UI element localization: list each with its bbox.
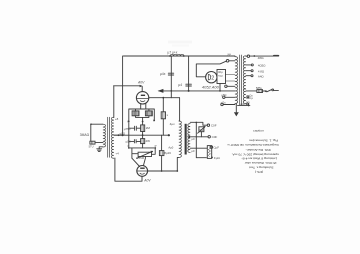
transformer T3 secondary winding [243,56,246,104]
ground T3 [234,112,239,116]
wire cathode row 2 [129,147,156,149]
capacitor C4 plates [134,140,136,143]
wire primary bottom to ground [99,147,103,149]
ground input [97,149,102,152]
resistor R3 box [141,125,145,132]
capacitor C2 vertical lead [188,56,190,91]
terminal T3 primary top left [226,60,229,63]
junction dot center [142,121,144,123]
transformer T2 core [185,124,187,155]
wire left vertical from rail [122,56,124,135]
terminal tapA4 [251,75,253,77]
input source wires [91,124,103,141]
svg-text:µ750: µ750 [124,127,131,131]
wire T2 middle tap [189,136,208,138]
svg-text:2: 2 [211,76,214,82]
terminal T3 left mid [225,85,227,87]
tube V2 cathode arc [140,172,144,175]
junction dot C5 [219,90,221,92]
svg-text:5Ω: 5Ω [246,101,250,105]
transformer T1 secondary winding [111,117,113,158]
svg-text:CµF: CµF [213,146,219,150]
wire right vertical 2 lower from OT [177,157,179,171]
junction dot middle tap [188,136,190,138]
svg-text:4052 A00: 4052 A00 [202,86,219,90]
terminal R8 top [210,146,212,148]
wire T3 HV top tap to right rail [246,55,278,57]
wire R7 to transformer [95,142,103,144]
transformer T1 input primary winding [103,124,106,147]
svg-text:2M: 2M [146,126,151,130]
wire R4 down [142,144,144,148]
junction dot P left [128,121,130,123]
tube V2 grid chord [137,170,147,172]
svg-text:40µ: 40µ [218,70,223,74]
svg-text:+4: +4 [115,152,119,156]
junction dot IT tap [118,134,120,136]
svg-text:(FS.): (FS.) [255,170,263,174]
svg-text:15 Ohm. Weiteres uber: 15 Ohm. Weiteres uber [245,161,277,165]
svg-text:4 8Ω: 4 8Ω [258,69,265,73]
svg-text:µ7 µ+x: µ7 µ+x [168,50,178,54]
terminal T3 left tap4 [221,103,223,105]
junction dot right rail [253,55,255,57]
wire T1 secondary centre tap [114,134,123,136]
junction dot P right [154,120,156,122]
potentiometer VR1 wires [132,148,155,158]
wire terminal mid to T3 [227,85,235,87]
svg-text:C0F: C0F [212,135,218,139]
svg-text:P: P [153,118,155,122]
resistor R4 box lower [141,139,145,144]
capacitor C4 lead [129,140,134,142]
resistor R5 box on plate line [161,112,165,119]
terminal HV [247,55,249,57]
svg-text:Schaltung s. Text: Schaltung s. Text [249,166,274,170]
junction dot top tap [196,122,198,124]
svg-text:spannung betragt 250 V, 70 mA.: spannung betragt 250 V, 70 mA. [231,152,278,156]
transformer T1 core [108,117,110,157]
svg-text:FµΩ: FµΩ [214,156,221,160]
terminal T3 left tap3 [223,96,225,98]
wire T3 tap A4 [246,75,251,77]
wire left cathode vertical [128,121,130,148]
wire top B+ rail [123,55,234,57]
potentiometer VR2 arrow [198,127,205,134]
svg-text:Fig. 1. Schema des: Fig. 1. Schema des [249,138,278,142]
svg-text:Leistung 8 Watt an 4-8-: Leistung 8 Watt an 4-8- [241,157,277,161]
terminal top output [207,124,209,126]
svg-text:µ4x: µ4x [160,72,166,76]
arrow into tube V1 grid [140,85,143,88]
rectifier U1 envelope [206,72,217,83]
junction dots right on rail [168,134,170,136]
wire V2 plate to right verticals [148,170,178,172]
wire terminal to T3 [229,60,235,62]
resistor R8 load box [207,146,211,159]
resistor R6 box [159,151,164,156]
wire T2 secondary top tap [190,122,207,125]
svg-text:U55Ω: U55Ω [136,156,145,160]
svg-text:3MAΩ: 3MAΩ [80,133,90,137]
terminal R8 bottom dot [211,157,213,159]
tube V1 plate bar [141,95,145,96]
wire tap4 [223,104,235,106]
wire C5 to B+ line [219,84,221,91]
wire output vertical [196,122,206,157]
transformer T2 secondary winding [188,124,190,153]
capacitor C3 plates [135,126,137,130]
capacitor C2 plates [186,84,192,86]
svg-text:5TU: 5TU [89,144,94,148]
wire T3 tap 48 [246,70,251,72]
tube V2 envelope [137,166,148,177]
terminal middle output [208,136,210,138]
switch S1 [265,90,267,92]
tube V1 envelope [136,92,148,104]
svg-text:µΩx: µΩx [221,100,227,104]
resistor R2 box [145,111,152,116]
transformer T3 power primary winding [235,57,238,104]
capacitor C4 lead right [137,140,141,142]
wire right vertical 1 lower [161,135,163,171]
wire VR2 stub [200,132,202,137]
potentiometer VR2 box [199,127,204,132]
inductor L1 choke on rail [170,54,184,56]
junction dot on rail at left vertical [122,134,124,136]
terminals T3 right lower [247,96,249,98]
svg-text:µ4: µ4 [178,83,182,87]
junction dot input top [90,123,92,125]
resistor R1 box [132,111,139,116]
wire vertical to input transformer secondary top [112,86,114,118]
svg-text:caption: caption [253,128,265,132]
capacitor C1 plates [168,73,173,75]
resistor R9 box on heater line [257,90,263,93]
dash end right rail [274,55,279,57]
wire U1 plate to transformer top left [196,61,226,77]
wire T3 centre tap to ground [235,103,237,112]
svg-text:480x: 480x [258,56,265,60]
svg-text:3µA: 3µA [199,128,204,132]
junction dots on B+ line [170,90,172,92]
wires C5 to transformer T3 [226,75,235,82]
wires R1 R2 stubs [136,109,149,125]
svg-text:585v: 585v [256,86,263,90]
tube V1 cathode arc [140,100,145,103]
wires VR1 to tube V2 [132,157,146,167]
svg-text:+8: +8 [115,117,119,121]
rectifier U1 plates [208,75,210,80]
capacitor C1 vertical lead [170,56,172,91]
tube V1 pins [141,104,146,109]
svg-text:4µx: 4µx [170,122,176,126]
svg-text:µ0: µ0 [191,137,195,141]
wire V2 grid from input transformer [115,158,142,181]
arrowhead B+ left end [158,89,164,93]
svg-text:2W: 2W [146,139,151,143]
transformer T3 core [240,55,242,105]
terminal tap48 [251,70,253,72]
caption text block rotated 180deg [227,138,279,174]
svg-text:A4Ω: A4Ω [258,74,265,78]
transformer T2 output primary winding [179,121,182,157]
wire V1 grid drop [141,86,143,91]
svg-text:µµ: µµ [228,52,232,56]
wire tap3 [225,96,235,98]
svg-text:A0V: A0V [143,179,151,183]
junction dot [142,134,144,136]
junction dots row2 [128,147,130,149]
potentiometer VR1 box [138,152,151,156]
capacitor C3 lead right [137,127,141,129]
svg-text:Aµ0: Aµ0 [168,145,173,149]
tube V2 plate bar [140,168,145,169]
svg-text:µ+: µ+ [243,88,247,91]
tube V1 grid feed wire [114,85,140,87]
junction dots at choke ends [169,55,171,57]
resistor row top wire under V1 [129,109,155,121]
wire V1 plate line [149,98,180,136]
wire T3 tap 450 [246,64,251,66]
svg-text:x: x [167,113,169,117]
svg-text:A0V: A0V [137,81,145,85]
wire vertical screen feed [171,91,179,121]
arrow 5ohm [238,104,249,106]
resistor R7 input box [90,141,95,144]
svg-text:µ50: µ50 [126,140,131,144]
svg-text:8µ16: 8µ16 [164,151,171,155]
wire T2 bottom tap [190,147,207,149]
wire long horizontal rail [114,134,170,136]
wire B+ feed line [159,90,266,92]
capacitor C5 block beside rectifier [217,70,226,84]
svg-text:4Ω5Ω: 4Ω5Ω [258,64,266,68]
tube V1 grid chord [137,98,149,100]
svg-text:6V6. Die Anoden-: 6V6. Die Anoden- [246,148,271,152]
svg-text:µ0: µ0 [191,149,195,153]
svg-text:µ5Ω: µ5Ω [221,93,226,97]
potentiometer VR1 wiper arrow [137,151,153,158]
terminal tap450 [251,64,253,66]
faint print-through smudge [168,41,192,44]
svg-text:Gegentakt-Verstarkers mit 6SN7: Gegentakt-Verstarkers mit 6SN7 u. [227,143,279,147]
wire R3 to long rail [142,132,144,139]
svg-text:+µµ: +µµ [218,75,223,78]
junction dot plate line [162,97,164,99]
svg-text:C0F: C0F [211,124,217,128]
capacitor C3 lead [129,127,134,129]
junction dots V2 plate line [161,170,163,172]
